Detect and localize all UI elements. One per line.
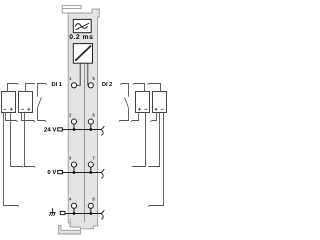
earth feed square connector — [60, 211, 65, 214]
terminal 5 (DI2) — [88, 83, 93, 88]
module bottom DIN-rail foot — [59, 219, 81, 235]
wire B2 minus to 0V — [25, 113, 36, 168]
junction dot terminal 6 — [89, 128, 92, 131]
module body U1 (I/O terminal block, gray strip) — [68, 9, 99, 229]
sensor B1 (left outer 3-wire sensor box) — [2, 92, 16, 113]
wire B3 minus to 0V — [132, 113, 146, 168]
0V rail through terminals 3 and 7 — [63, 172, 101, 174]
svg-text:−: − — [144, 107, 147, 113]
wire B2 plus to 24V — [22, 113, 36, 123]
terminal 4 (earth) — [71, 203, 76, 208]
terminal 6 (+24V) — [88, 119, 93, 124]
wire B1 shield to earth — [4, 113, 20, 207]
wire B4 plus to 24V — [151, 113, 157, 122]
terminal 1 (DI1) — [71, 83, 76, 88]
svg-text:24 V: 24 V — [44, 126, 56, 133]
svg-text:0.2 ms: 0.2 ms — [69, 34, 93, 41]
wire from isolation box to terminal 1 — [77, 63, 81, 85]
galvanic isolation box — [73, 44, 92, 64]
wire B1 signal to DI1 — [8, 84, 19, 92]
sensor B3 (right inner 3-wire sensor box) — [136, 92, 150, 113]
input filter box with 0.2 ms time constant — [73, 19, 91, 32]
24V feed square connector — [58, 128, 63, 131]
terminal 3 (0V) — [71, 162, 76, 167]
sensor B2 (left inner 3-wire sensor box) — [19, 92, 33, 113]
svg-text:+: + — [10, 107, 13, 113]
0V feed square connector — [58, 171, 63, 174]
wire B4 shield to earth — [148, 113, 163, 207]
earth rail right hook to next module — [100, 210, 104, 219]
wire B1 plus to 24V — [6, 113, 18, 123]
junction dot terminal 3 — [73, 171, 76, 174]
junction dot terminal 7 — [89, 171, 92, 174]
terminal 8 (earth) — [88, 203, 93, 208]
svg-text:+: + — [138, 107, 141, 113]
wire B3 signal to DI2 — [133, 84, 145, 92]
wire B3 plus to 24V — [131, 113, 139, 122]
svg-text:0 V: 0 V — [47, 169, 56, 176]
svg-text:−: − — [21, 107, 24, 113]
wire B1 minus to 0V — [11, 113, 24, 168]
wire B4 minus to 0V — [148, 113, 159, 168]
0V rail right hook to next module — [100, 169, 104, 178]
switch S2 (channel 2 contact) — [119, 84, 128, 122]
switch S1 (channel 1 contact) — [38, 84, 47, 122]
wire B4 signal to DI2 — [148, 84, 161, 92]
junction dot terminal 4 — [73, 212, 76, 215]
wire B2 signal to DI1 — [26, 84, 35, 92]
svg-text:+: + — [155, 107, 158, 113]
junction dot terminal 2 — [73, 128, 76, 131]
svg-text:DI 1: DI 1 — [52, 82, 62, 88]
svg-text:−: − — [3, 107, 6, 113]
terminal 7 (0V) — [88, 162, 93, 167]
svg-text:DI 2: DI 2 — [102, 82, 112, 88]
earth rail through terminals 4 and 8 — [65, 213, 100, 215]
sensor B4 (right outer 3-wire sensor box) — [153, 92, 167, 113]
junction dot terminal 8 — [89, 212, 92, 215]
earth symbol — [49, 208, 55, 216]
svg-text:−: − — [161, 107, 164, 113]
module top mounting bar — [62, 6, 81, 13]
svg-text:+: + — [27, 107, 30, 113]
24V rail right hook to next module — [100, 126, 104, 135]
wire from isolation box to terminal 5 — [87, 63, 89, 85]
24V rail through terminals 2 and 6 — [63, 129, 101, 131]
module center divider — [84, 63, 86, 222]
terminal 2 (+24V) — [71, 119, 76, 124]
